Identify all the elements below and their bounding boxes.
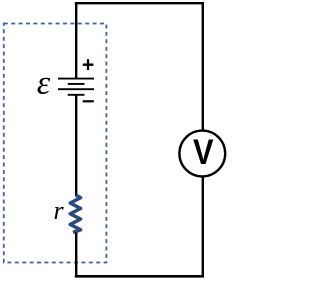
wire top [75,2,204,4]
wire right upper (top rail to voltmeter) [202,2,204,131]
wire right lower (voltmeter to bottom rail) [202,176,204,277]
wire left middle (battery to internal resistor) [75,95,77,196]
wire left lower (resistor to bottom rail) [75,233,77,278]
svg-text:r: r [53,196,64,225]
emf label epsilon [37,64,51,101]
wire bottom [75,275,204,278]
wire left upper (top rail to battery) [75,2,77,78]
minus terminal label [83,100,94,102]
dashed boundary box of real battery (emf + internal resistance) [4,24,107,263]
battery EMF source [58,79,94,95]
svg-text:V: V [193,132,214,171]
plus terminal label [83,59,94,70]
svg-text:ε: ε [37,64,51,101]
voltmeter V [179,131,225,177]
resistor label r [53,196,64,225]
resistor r (internal resistance zigzag) [70,195,80,232]
